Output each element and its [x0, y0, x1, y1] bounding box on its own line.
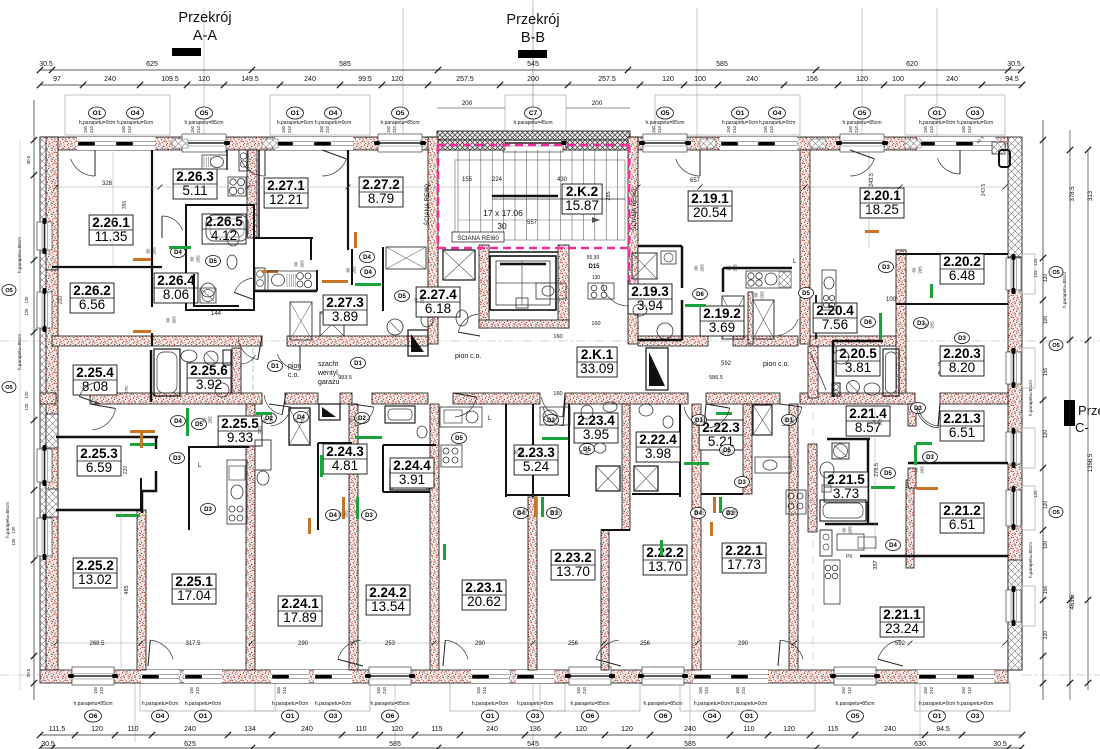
svg-text:h.parapetu=85cm: h.parapetu=85cm — [842, 120, 881, 126]
svg-text:220: 220 — [58, 296, 64, 305]
room 2.25.4 — [73, 365, 117, 395]
Przekroj A-A label — [172, 10, 232, 56]
door type labels — [171, 247, 186, 258]
room 2.25.5 — [218, 416, 262, 446]
svg-text:205: 205 — [878, 418, 883, 426]
room 2.26.1 — [89, 215, 133, 245]
top-right corner block — [975, 135, 1010, 197]
room 2.21.3 — [940, 411, 984, 441]
svg-text:33.09: 33.09 — [580, 361, 614, 376]
exterior right wall — [1008, 137, 1022, 257]
room 2.22.1 — [722, 543, 766, 573]
svg-text:115: 115 — [431, 726, 442, 733]
room 2.21.1 — [880, 607, 924, 637]
svg-text:120: 120 — [1043, 430, 1049, 439]
svg-text:150: 150 — [735, 686, 740, 694]
wall between 2.26 and 2.27 — [247, 150, 257, 238]
svg-text:150: 150 — [189, 686, 194, 694]
room 2.21.5 — [824, 472, 868, 502]
svg-text:O5: O5 — [661, 110, 670, 117]
shower 2.22.4 — [634, 466, 658, 491]
svg-text:160: 160 — [591, 321, 600, 327]
svg-text:3.95: 3.95 — [583, 427, 609, 442]
svg-text:155: 155 — [462, 177, 473, 183]
svg-text:210: 210 — [382, 686, 387, 694]
svg-text:5.24: 5.24 — [523, 459, 550, 474]
svg-text:D1: D1 — [354, 361, 362, 367]
room 2.20.5 — [836, 346, 880, 376]
svg-text:120: 120 — [575, 726, 587, 733]
svg-text:30.5: 30.5 — [26, 668, 31, 677]
wall 2.25.2|2.25.1 — [137, 510, 146, 670]
svg-text:125: 125 — [24, 308, 29, 316]
svg-text:13.02: 13.02 — [78, 572, 112, 587]
svg-text:h.parapetu=0cm: h.parapetu=0cm — [472, 701, 508, 707]
right dimension chains — [1028, 120, 1094, 700]
svg-text:80: 80 — [924, 322, 929, 327]
svg-text:2.20.2: 2.20.2 — [943, 254, 981, 269]
svg-text:290: 290 — [298, 641, 309, 647]
svg-text:2.23.1: 2.23.1 — [465, 580, 503, 595]
svg-text:O4: O4 — [773, 110, 782, 117]
misc toilets top mid — [456, 310, 468, 326]
svg-text:210: 210 — [89, 125, 94, 133]
wall between 2.19 and 2.20 — [800, 150, 810, 344]
svg-text:150: 150 — [376, 686, 381, 694]
svg-text:109.5: 109.5 — [161, 76, 179, 83]
svg-text:80: 80 — [727, 265, 732, 270]
svg-text:463.5: 463.5 — [1070, 594, 1076, 610]
svg-text:2.19.3: 2.19.3 — [631, 284, 669, 299]
door marks green — [140, 246, 933, 560]
svg-text:625: 625 — [146, 61, 158, 68]
svg-text:2.22.1: 2.22.1 — [725, 543, 763, 558]
svg-text:13.70: 13.70 — [648, 559, 682, 574]
stairs text — [462, 177, 612, 231]
svg-text:8.79: 8.79 — [368, 191, 394, 206]
svg-text:D3: D3 — [365, 513, 373, 519]
svg-text:110: 110 — [355, 726, 366, 733]
svg-text:D4: D4 — [329, 513, 337, 519]
partition 2.23 rooms — [505, 404, 507, 497]
svg-text:D3: D3 — [926, 455, 934, 461]
svg-text:30.5: 30.5 — [26, 155, 31, 164]
svg-text:557: 557 — [527, 220, 538, 226]
elevator machine room top — [489, 251, 558, 253]
partition 2.21 rooms — [808, 444, 817, 532]
svg-text:2.23.2: 2.23.2 — [554, 550, 592, 565]
partition 2.25.1 kitchen nook — [188, 446, 249, 448]
shower 2.27.4 — [443, 250, 475, 280]
svg-text:5.11: 5.11 — [182, 183, 207, 198]
partitions 2.20 rooms — [896, 253, 1008, 255]
door marks orange — [133, 230, 879, 536]
svg-text:O1: O1 — [486, 713, 495, 720]
svg-text:115: 115 — [827, 726, 838, 733]
svg-text:240: 240 — [746, 76, 758, 83]
svg-text:ŚCIANA REI60: ŚCIANA REI60 — [457, 234, 499, 242]
svg-text:205: 205 — [848, 526, 853, 534]
room 2.25.3 — [77, 446, 121, 476]
svg-text:120: 120 — [24, 391, 29, 399]
Przekroj B-B label — [506, 12, 559, 58]
svg-text:80: 80 — [146, 248, 151, 253]
svg-text:3.98: 3.98 — [645, 446, 671, 461]
svg-text:O1: O1 — [199, 713, 208, 720]
svg-text:h.parapetu=85cm: h.parapetu=85cm — [1062, 272, 1067, 308]
svg-text:O3: O3 — [531, 713, 540, 720]
kitchen 2.21.1 — [820, 530, 876, 604]
bathroom 2.24.4 tub — [385, 406, 427, 438]
svg-text:h.parapetu=0cm: h.parapetu=0cm — [117, 120, 153, 126]
room 2.27.1 — [264, 178, 308, 208]
svg-text:150: 150 — [121, 125, 126, 133]
svg-text:13.70: 13.70 — [556, 564, 590, 579]
svg-text:O6: O6 — [586, 713, 595, 720]
svg-text:O1: O1 — [933, 713, 942, 720]
svg-text:130: 130 — [592, 275, 601, 281]
windows left wall — [37, 218, 52, 560]
svg-text:D5: D5 — [455, 436, 463, 442]
svg-text:O5: O5 — [200, 110, 209, 117]
svg-text:210: 210 — [482, 686, 487, 694]
partition 2.24 rooms — [317, 443, 319, 530]
svg-text:C-: C- — [1075, 420, 1089, 435]
svg-text:O1: O1 — [291, 110, 300, 117]
svg-text:585: 585 — [339, 61, 351, 68]
kitchen 2.23.2 wall counter — [540, 407, 570, 425]
wall 2.23.1|2.23.2 — [528, 497, 537, 670]
kitchen nook 2.19.1 — [723, 267, 792, 270]
svg-text:6.18: 6.18 — [425, 301, 451, 316]
kitchen 2.23.1 — [440, 407, 492, 467]
svg-text:Prze: Prze — [1078, 403, 1100, 418]
room 2.23.3 — [514, 445, 558, 475]
svg-text:2.20.3: 2.20.3 — [943, 346, 981, 361]
svg-text:2.24.2: 2.24.2 — [369, 585, 407, 600]
svg-text:240: 240 — [301, 726, 313, 733]
svg-text:120: 120 — [783, 726, 795, 733]
bathroom 2.19.3 fixtures — [632, 251, 706, 339]
svg-text:205: 205 — [918, 266, 923, 274]
svg-text:120: 120 — [621, 726, 633, 733]
corridor bottom wall — [40, 393, 56, 404]
svg-text:18.25: 18.25 — [865, 202, 899, 217]
svg-text:O3: O3 — [971, 713, 980, 720]
room 2.K.1 — [577, 347, 617, 377]
svg-text:200: 200 — [527, 76, 539, 83]
svg-text:378.5: 378.5 — [1070, 186, 1076, 202]
svg-text:h.parapetu=85cm: h.parapetu=85cm — [17, 237, 22, 273]
elevator shaft walls — [479, 245, 569, 328]
windows right wall — [1006, 254, 1035, 626]
svg-text:h.parapetu=0cm: h.parapetu=0cm — [919, 120, 955, 126]
bathroom 2.21.5 fixtures — [820, 462, 866, 521]
svg-text:2.26.1: 2.26.1 — [92, 215, 130, 230]
svg-text:205: 205 — [930, 321, 935, 329]
room 2.23.4 — [574, 413, 618, 443]
svg-text:2.21.1: 2.21.1 — [883, 607, 921, 622]
svg-text:D3: D3 — [738, 480, 746, 486]
svg-text:253: 253 — [385, 641, 396, 647]
room 2.26.4 — [154, 273, 198, 303]
partition 2.27.1/2.27.2 — [347, 150, 349, 250]
windows top wall — [77, 134, 995, 152]
svg-text:100: 100 — [1043, 316, 1049, 325]
svg-text:2.24.3: 2.24.3 — [326, 444, 364, 459]
svg-text:17.04: 17.04 — [177, 588, 211, 603]
dimension chain top row 1 — [37, 61, 1024, 73]
svg-text:150: 150 — [386, 125, 391, 133]
wall kitchen 2.26.3 — [226, 150, 228, 170]
svg-text:ŚCIANA REI60: ŚCIANA REI60 — [423, 184, 431, 226]
wall right block vertical — [896, 250, 906, 404]
svg-text:205: 205 — [585, 448, 590, 456]
svg-text:150: 150 — [281, 125, 286, 133]
svg-text:2.27.1: 2.27.1 — [267, 178, 305, 193]
svg-text:150: 150 — [726, 125, 731, 133]
svg-text:D4: D4 — [174, 419, 182, 425]
svg-text:h.parapetu=85cm: h.parapetu=85cm — [835, 701, 874, 707]
svg-text:6.59: 6.59 — [86, 460, 112, 475]
svg-text:80: 80 — [754, 292, 759, 297]
svg-text:270: 270 — [124, 386, 129, 394]
shower 2.27.3 — [320, 312, 344, 336]
svg-text:O5: O5 — [1052, 270, 1059, 276]
svg-text:80: 80 — [338, 511, 343, 516]
svg-text:110: 110 — [127, 726, 138, 733]
svg-text:240: 240 — [104, 76, 116, 83]
svg-text:30: 30 — [497, 221, 507, 231]
room 2.K.2 — [562, 184, 602, 214]
svg-text:2.25.2: 2.25.2 — [76, 558, 114, 573]
svg-text:h.parapetu=0cm: h.parapetu=0cm — [957, 120, 993, 126]
svg-text:205: 205 — [520, 448, 525, 456]
door swing arcs — [71, 150, 960, 666]
svg-text:100: 100 — [694, 76, 706, 83]
svg-text:A-A: A-A — [193, 28, 218, 44]
svg-text:110: 110 — [743, 726, 754, 733]
room 2.24.1 — [278, 596, 322, 626]
svg-text:150: 150 — [841, 686, 846, 694]
svg-text:D1: D1 — [271, 364, 279, 370]
bathroom 2.26.5 fixtures — [201, 230, 239, 297]
svg-text:243.5: 243.5 — [869, 173, 875, 187]
svg-text:D6: D6 — [864, 320, 872, 326]
svg-text:h.parapetu=0cm: h.parapetu=0cm — [759, 120, 795, 126]
svg-text:328: 328 — [102, 181, 113, 187]
SCIANA REI60 pink dashed fire wall — [437, 145, 630, 302]
svg-text:7.56: 7.56 — [822, 317, 848, 332]
svg-text:D5: D5 — [884, 471, 892, 477]
svg-text:80: 80 — [694, 265, 699, 270]
svg-text:h.parapetu=0cm: h.parapetu=0cm — [919, 701, 955, 707]
svg-text:156: 156 — [806, 76, 818, 83]
dimension chain top row 2 — [37, 76, 1025, 88]
svg-text:585: 585 — [716, 61, 728, 68]
svg-text:205: 205 — [196, 255, 201, 263]
room 2.20.1 — [860, 188, 904, 218]
svg-text:h.parapetu=85cm: h.parapetu=85cm — [17, 334, 22, 370]
svg-text:17.73: 17.73 — [727, 557, 761, 572]
svg-text:80: 80 — [263, 417, 268, 422]
svg-text:210: 210 — [967, 686, 972, 694]
svg-text:156: 156 — [1043, 586, 1049, 595]
svg-text:h.parapetu=0cm: h.parapetu=0cm — [142, 701, 178, 707]
svg-text:240: 240 — [884, 726, 896, 733]
svg-text:O3: O3 — [329, 713, 338, 720]
svg-text:150: 150 — [923, 686, 928, 694]
svg-text:6.51: 6.51 — [949, 425, 975, 440]
left dimension chains — [2, 100, 37, 700]
svg-text:h.parapetu=85cm: h.parapetu=85cm — [370, 701, 409, 707]
svg-text:O6: O6 — [659, 713, 668, 720]
svg-text:h.parapetu=0cm: h.parapetu=0cm — [957, 701, 993, 707]
svg-text:240: 240 — [304, 76, 316, 83]
window type labels bottom — [73, 683, 1010, 722]
svg-text:120: 120 — [24, 296, 29, 304]
svg-text:205: 205 — [152, 247, 157, 255]
room 2.23.2 — [551, 550, 595, 580]
room 2.20.4 — [813, 303, 857, 333]
svg-text:290: 290 — [738, 641, 749, 647]
svg-text:6.48: 6.48 — [949, 268, 975, 283]
svg-text:h.parapetu=0cm: h.parapetu=0cm — [79, 120, 115, 126]
exterior top wall — [40, 137, 1008, 150]
svg-text:205: 205 — [727, 448, 732, 456]
staircase — [455, 150, 625, 240]
svg-text:210: 210 — [769, 125, 774, 133]
corridor mid rooms 2.25.4/2.25.6 partitions — [151, 348, 256, 404]
partition 2.26.5 bathroom — [186, 205, 254, 310]
svg-text:2.21.2: 2.21.2 — [943, 503, 981, 518]
wall 2.24.2|2.23.1 — [430, 404, 439, 670]
svg-text:pion c.o.: pion c.o. — [455, 353, 482, 360]
svg-text:3.89: 3.89 — [332, 309, 358, 324]
shower 2.23.4 — [596, 466, 620, 491]
kitchen 2.27 fixtures — [268, 271, 317, 290]
svg-text:205: 205 — [523, 508, 528, 516]
svg-text:120: 120 — [1033, 258, 1038, 266]
bathroom 2.20.5 — [808, 313, 899, 398]
svg-text:2.27.4: 2.27.4 — [419, 287, 457, 302]
svg-text:80: 80 — [912, 267, 917, 272]
exterior left wall — [40, 137, 47, 670]
svg-text:h.parapetu=0cm: h.parapetu=0cm — [731, 701, 767, 707]
svg-text:h.parapetu=45cm: h.parapetu=45cm — [513, 120, 552, 126]
room 2.27.2 — [359, 177, 403, 207]
svg-text:205: 205 — [300, 260, 305, 268]
corridor top wall right part — [638, 336, 708, 346]
svg-text:210: 210 — [287, 125, 292, 133]
svg-text:150: 150 — [848, 125, 853, 133]
svg-text:pion c.o.: pion c.o. — [763, 361, 790, 368]
svg-text:210: 210 — [929, 125, 934, 133]
svg-text:8.06: 8.06 — [163, 287, 189, 302]
corridor shaft texts — [288, 255, 958, 397]
wall 2.25.1|2.24.1 — [246, 404, 255, 670]
svg-text:120: 120 — [1043, 501, 1049, 510]
svg-text:585: 585 — [684, 741, 696, 748]
svg-text:313: 313 — [1088, 190, 1094, 201]
room 2.27.4 — [416, 287, 460, 317]
svg-text:205: 205 — [556, 508, 561, 516]
partition 2.22 rooms — [679, 404, 681, 497]
svg-text:O3: O3 — [971, 110, 980, 117]
svg-text:80: 80 — [349, 417, 354, 422]
svg-text:D5: D5 — [209, 259, 217, 265]
corridor shafts — [319, 330, 668, 420]
svg-text:55,30: 55,30 — [587, 255, 600, 261]
stair core right wall — [628, 137, 638, 344]
svg-text:210: 210 — [195, 686, 200, 694]
svg-text:150: 150 — [576, 686, 581, 694]
svg-text:240: 240 — [946, 76, 958, 83]
svg-text:160: 160 — [553, 391, 562, 397]
svg-text:h.parapetu=85cm: h.parapetu=85cm — [643, 701, 682, 707]
room 2.22.4 — [636, 432, 680, 462]
svg-text:2.27.2: 2.27.2 — [362, 177, 400, 192]
svg-text:80: 80 — [517, 509, 522, 514]
svg-text:O1: O1 — [93, 110, 102, 117]
svg-text:592: 592 — [895, 641, 906, 647]
svg-text:205: 205 — [733, 264, 738, 272]
room 2.25.6 — [187, 363, 231, 393]
svg-text:2.26.2: 2.26.2 — [73, 283, 111, 298]
svg-text:80: 80 — [914, 467, 919, 472]
svg-text:205: 205 — [355, 416, 360, 424]
svg-text:205: 205 — [269, 416, 274, 424]
svg-text:160: 160 — [553, 334, 562, 340]
svg-text:200: 200 — [462, 100, 473, 107]
svg-text:150: 150 — [763, 125, 768, 133]
svg-text:80: 80 — [294, 417, 299, 422]
svg-text:278.5: 278.5 — [874, 463, 880, 477]
svg-text:30.5: 30.5 — [993, 741, 1007, 748]
svg-text:D6: D6 — [696, 292, 704, 298]
svg-text:205: 205 — [760, 291, 765, 299]
svg-text:6.56: 6.56 — [79, 297, 105, 312]
svg-text:PK: PK — [846, 554, 853, 560]
svg-text:2.21.3: 2.21.3 — [943, 411, 981, 426]
svg-text:205: 205 — [420, 296, 425, 304]
svg-text:D15: D15 — [588, 264, 600, 270]
wall 2.23.4|2.22.4 — [622, 404, 630, 530]
svg-text:2.26.4: 2.26.4 — [157, 273, 195, 288]
svg-text:8.20: 8.20 — [949, 360, 975, 375]
svg-text:20.54: 20.54 — [693, 205, 727, 220]
svg-text:205: 205 — [790, 416, 795, 424]
window projection boxes top — [65, 95, 1005, 135]
svg-text:O5: O5 — [5, 288, 12, 294]
svg-text:592: 592 — [721, 361, 732, 367]
corridor top wall left part — [52, 336, 262, 346]
room 2.26.2 — [70, 283, 114, 313]
partition top-left rooms — [52, 266, 162, 268]
windows bottom wall — [68, 667, 994, 685]
svg-text:2.24.4: 2.24.4 — [393, 458, 431, 473]
room 2.27.3 — [323, 295, 367, 325]
svg-text:30.5: 30.5 — [1007, 61, 1021, 68]
svg-text:80: 80 — [842, 527, 847, 532]
svg-text:9.33: 9.33 — [227, 430, 253, 445]
bathroom 2.23.4 fixtures — [581, 402, 617, 453]
svg-text:205: 205 — [700, 508, 705, 516]
bathroom 2.22.4 fixtures — [639, 404, 673, 428]
Przekroj C-C label right — [1064, 400, 1100, 435]
svg-text:290: 290 — [475, 641, 486, 647]
svg-text:2.26.3: 2.26.3 — [176, 169, 214, 184]
